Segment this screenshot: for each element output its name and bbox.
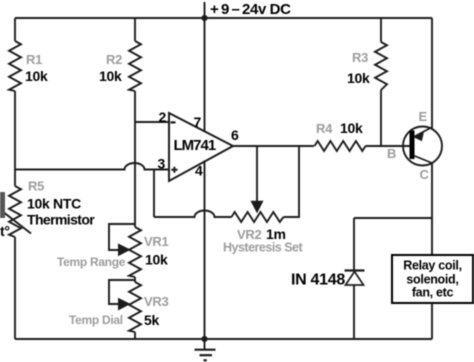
node ground junction dot	[201, 336, 207, 342]
wire top supply rail	[15, 17, 432, 19]
wire relay box bottom to rail	[431, 303, 433, 339]
wire op-amp output to R4	[233, 145, 314, 147]
svg-text:Hysteresis Set: Hysteresis Set	[223, 241, 304, 255]
svg-text:7: 7	[194, 114, 202, 130]
wire VR3 wiper bracket	[109, 280, 135, 304]
wire power stub	[204, 2, 206, 18]
potentiometer VR2 wiper arrow	[251, 201, 262, 212]
ground bar 3	[204, 359, 207, 361]
svg-text:solenoid,: solenoid,	[406, 273, 458, 287]
svg-text:4: 4	[195, 163, 203, 179]
ground bar 1	[195, 349, 216, 351]
resistor R3	[375, 42, 387, 90]
wire R4 to transistor base	[366, 145, 411, 147]
svg-text:10k: 10k	[347, 70, 370, 86]
svg-text:IN 4148: IN 4148	[291, 272, 345, 289]
wire R2 column top (rail to R2)	[134, 18, 136, 41]
potentiometer VR2	[232, 212, 284, 222]
ground stem	[204, 339, 206, 349]
potentiometer VR3	[129, 282, 141, 332]
wire pin 4 (op-amp to bottom rail)	[204, 161, 206, 340]
wire VR2 right end up to output	[284, 146, 300, 217]
transistor Q1 emitter arrow (PNP)	[414, 130, 425, 141]
potentiometer VR3 wiper arrow	[119, 299, 130, 310]
resistor R4	[315, 141, 366, 151]
potentiometer VR1 wiper arrow	[119, 244, 130, 255]
svg-text:R2: R2	[106, 52, 122, 67]
wire VR3 bottom to rail	[134, 332, 136, 339]
svg-text:C: C	[420, 167, 430, 182]
wire VR2 left (hop over pin4 column)	[154, 211, 232, 217]
svg-text:B: B	[387, 146, 396, 161]
wire diode lower segment	[353, 285, 355, 340]
svg-text:10k: 10k	[99, 68, 122, 84]
wire VR1 to VR3	[134, 277, 136, 282]
transistor Q1 base bar	[410, 131, 415, 160]
wire R3 bottom to base wire	[380, 90, 382, 146]
wire collector down to relay box	[431, 164, 433, 256]
transistor Q1 emitter diagonal	[414, 127, 432, 137]
wire bottom rail	[15, 338, 432, 340]
svg-text:VR1: VR1	[144, 234, 168, 249]
transistor Q1 circle	[403, 127, 442, 166]
op-amp U1 LM741 triangle	[169, 113, 233, 181]
resistor R1	[9, 41, 21, 91]
svg-text:Temp Dial: Temp Dial	[69, 313, 123, 327]
svg-text:6: 6	[231, 127, 239, 143]
potentiometer VR1	[129, 227, 141, 277]
wire R2 bottom down to VR1	[134, 91, 136, 227]
load box	[392, 255, 473, 303]
wire left column top (rail to R1)	[14, 18, 16, 41]
svg-text:3: 3	[158, 156, 166, 172]
diode D1 triangle	[346, 272, 364, 286]
svg-text:R3: R3	[352, 50, 368, 65]
svg-text:10k NTC: 10k NTC	[27, 196, 81, 212]
svg-text:LM741: LM741	[174, 137, 216, 154]
svg-text:10k: 10k	[340, 120, 363, 136]
transistor Q1 collector diagonal	[414, 156, 433, 164]
svg-text:VR3: VR3	[144, 294, 168, 309]
svg-text:10k: 10k	[145, 252, 168, 268]
wire pin 2 (R2 junction to op-amp)	[135, 121, 169, 123]
op-amp inverting minus sign	[171, 121, 176, 123]
thermistor R5 diagonal	[0, 210, 31, 234]
wire R1 bottom to junction	[14, 91, 16, 186]
wire R3 column top (rail to R3)	[380, 18, 382, 42]
artifact gray bar	[0, 192, 5, 218]
wire diode upper segment	[353, 218, 355, 271]
svg-text:2: 2	[159, 109, 167, 125]
svg-text:fan, etc: fan, etc	[412, 286, 454, 300]
svg-text:10k: 10k	[25, 68, 48, 84]
svg-text:Thermistor: Thermistor	[27, 212, 95, 228]
svg-text:R5: R5	[28, 179, 44, 194]
svg-text:R1: R1	[26, 52, 42, 67]
svg-text:E: E	[419, 109, 428, 124]
ground bar 2	[200, 354, 213, 356]
wire VR1 wiper bracket	[109, 224, 135, 250]
wire R5 bottom to bottom rail	[14, 237, 16, 339]
svg-text:+ 9 – 24v DC: + 9 – 24v DC	[210, 1, 291, 18]
svg-text:t°: t°	[0, 223, 10, 239]
wire VR2 wiper from output	[256, 146, 258, 203]
svg-text:Relay coil,: Relay coil,	[403, 259, 462, 273]
wire pin 3 (left junction to op-amp, hop over R2 column)	[15, 163, 169, 170]
wire diode top branch	[354, 217, 432, 219]
node V+ junction dot	[201, 15, 207, 21]
svg-text:5k: 5k	[144, 312, 159, 328]
svg-text:Temp Range: Temp Range	[57, 255, 126, 269]
svg-text:R4: R4	[316, 121, 333, 136]
resistor R2	[129, 41, 141, 91]
wire pin3 branch down	[153, 170, 155, 218]
node junction R1/R5/pin3	[14, 169, 16, 171]
op-amp non-inverting plus sign	[171, 167, 177, 173]
wire emitter column (rail down)	[431, 18, 433, 129]
wire pin 7 (top rail to op-amp)	[204, 18, 206, 131]
thermistor R5 zigzag	[9, 186, 21, 237]
diode D1 cathode bar	[345, 269, 365, 271]
